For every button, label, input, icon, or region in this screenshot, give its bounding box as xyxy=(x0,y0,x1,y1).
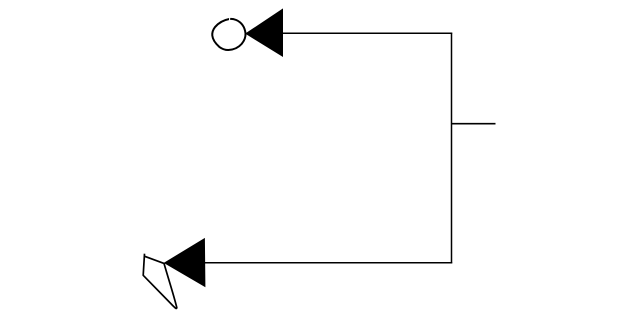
flag symbol (bottom-left) xyxy=(143,254,177,309)
node bubble (top-left input) xyxy=(212,17,245,50)
stub wire (right output) xyxy=(452,123,496,125)
wire (bottom horizontal) xyxy=(205,262,452,264)
wire (top horizontal) xyxy=(283,32,453,34)
arrowhead / diode symbol D1 (top) xyxy=(246,9,282,56)
arrowhead / diode symbol D2 (bottom) xyxy=(165,239,205,287)
wire (right vertical) xyxy=(451,33,453,264)
